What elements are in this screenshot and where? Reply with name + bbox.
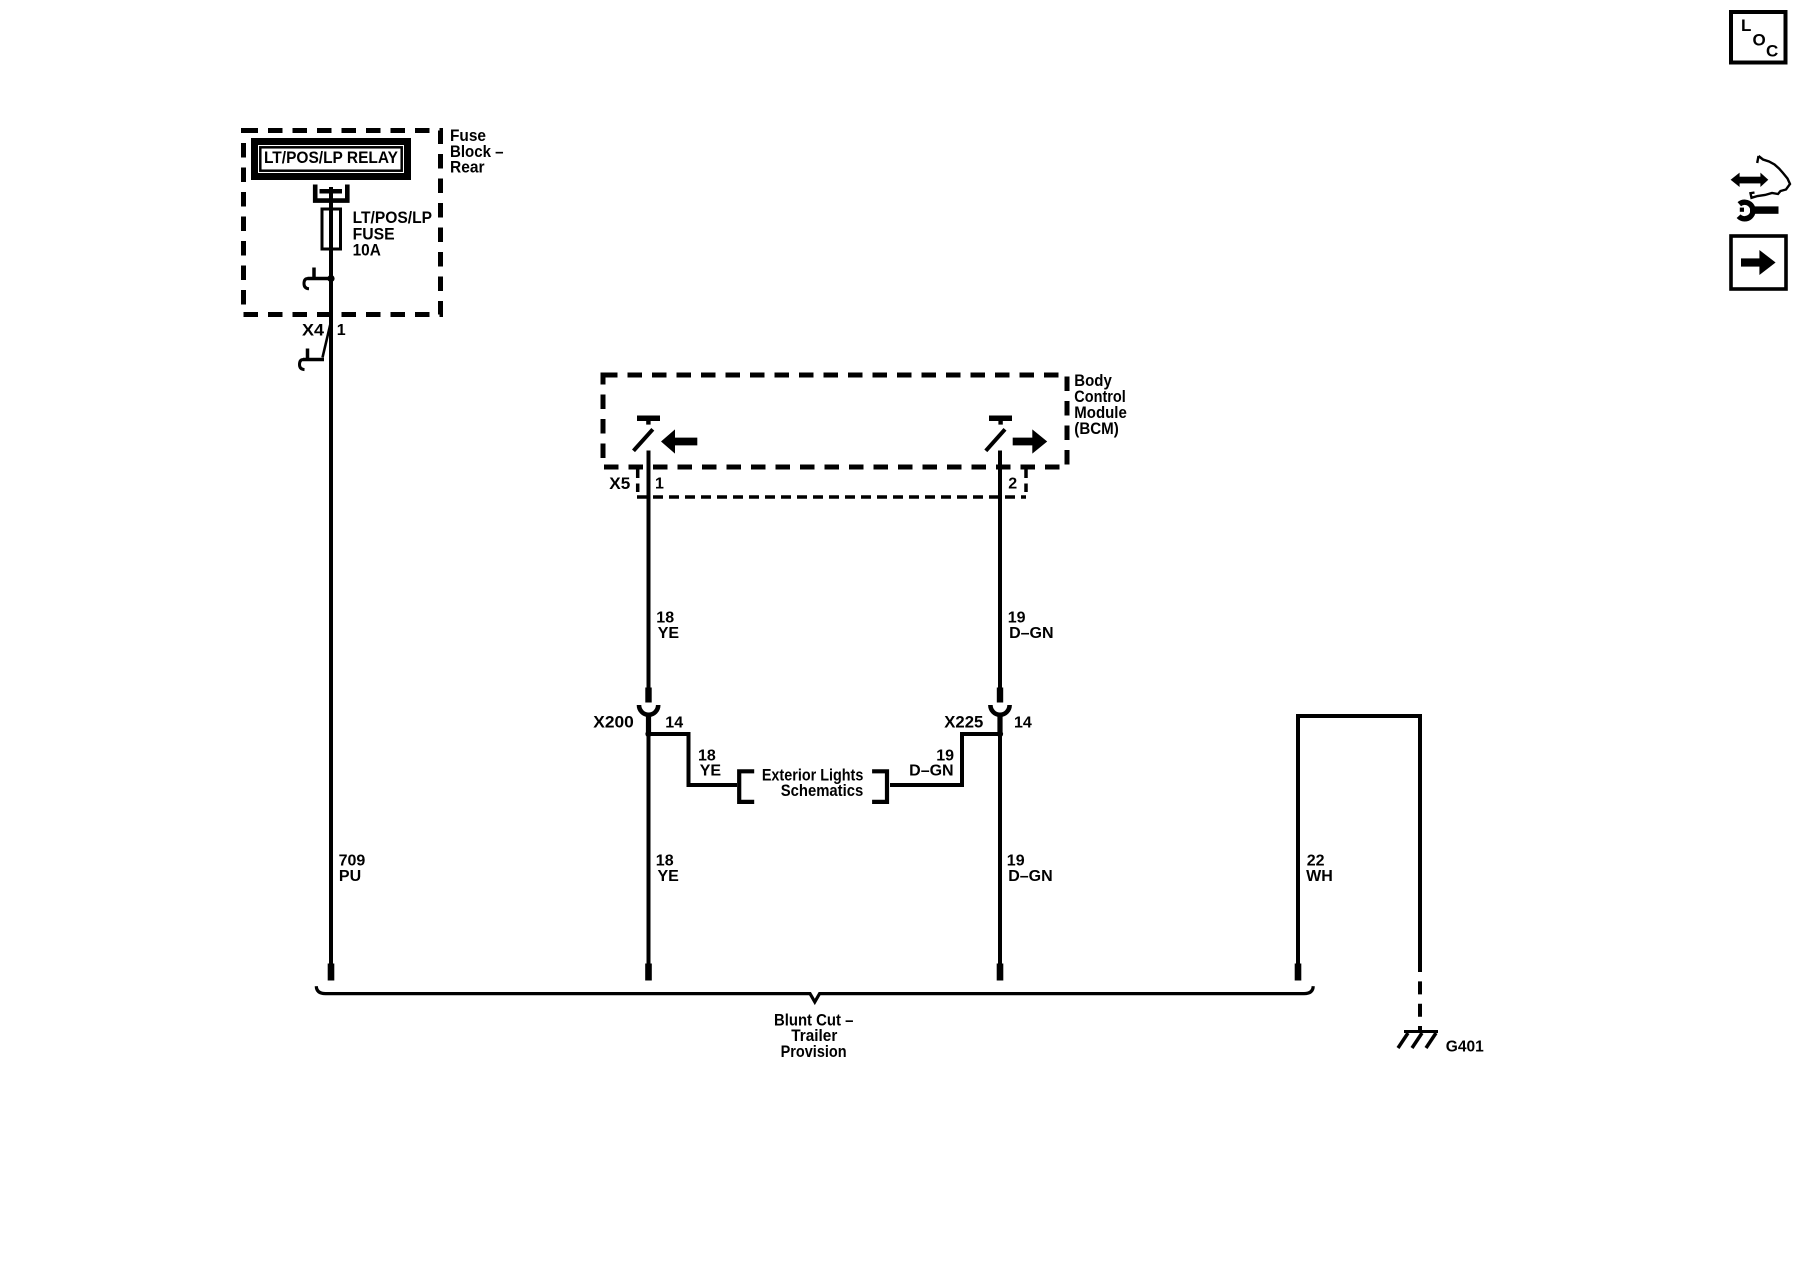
svg-text:Schematics: Schematics [781, 781, 864, 800]
svg-text:19: 19 [1007, 853, 1025, 870]
svg-text:D–GN: D–GN [1009, 625, 1053, 642]
svg-text:14: 14 [665, 715, 683, 732]
svg-text:G401: G401 [1446, 1039, 1484, 1056]
svg-text:14: 14 [1014, 715, 1032, 732]
svg-text:WH: WH [1306, 868, 1333, 885]
svg-text:YE: YE [658, 868, 680, 885]
svg-text:YE: YE [658, 625, 680, 642]
svg-text:C: C [1766, 42, 1778, 61]
svg-text:LT/POS/LP RELAY: LT/POS/LP RELAY [264, 148, 398, 167]
svg-text:O: O [1753, 31, 1766, 50]
svg-text:2: 2 [1008, 476, 1017, 493]
svg-text:YE: YE [700, 763, 722, 780]
svg-text:Provision: Provision [781, 1042, 847, 1061]
svg-text:(BCM): (BCM) [1074, 419, 1119, 438]
svg-text:D–GN: D–GN [909, 763, 953, 780]
svg-text:X4: X4 [302, 321, 325, 340]
svg-text:L: L [1741, 16, 1751, 35]
svg-text:709: 709 [339, 853, 366, 870]
svg-text:X225: X225 [944, 713, 983, 732]
svg-text:22: 22 [1307, 853, 1325, 870]
svg-text:18: 18 [656, 853, 674, 870]
svg-text:Rear: Rear [450, 158, 485, 177]
svg-text:1: 1 [337, 322, 346, 339]
svg-text:X5: X5 [609, 474, 630, 493]
svg-text:1: 1 [655, 476, 664, 493]
svg-text:D–GN: D–GN [1008, 868, 1052, 885]
svg-text:X200: X200 [593, 713, 634, 732]
svg-text:10A: 10A [353, 241, 381, 260]
svg-text:PU: PU [339, 868, 361, 885]
